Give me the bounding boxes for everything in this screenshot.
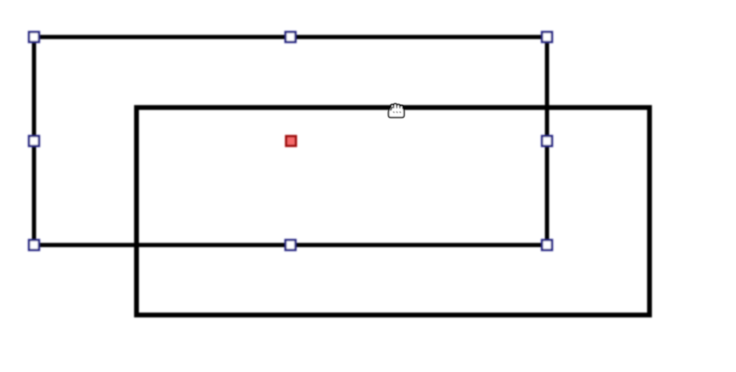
selection handle bottom-left (29, 240, 39, 250)
fingertip tick marks (392, 111, 395, 114)
selection handle middle-right (542, 136, 552, 146)
selection handle middle-left (29, 136, 39, 146)
rectangle shape A (selected, upper-left) (34, 37, 547, 245)
selection handle bottom-right (542, 240, 552, 250)
grabbing-hand cursor (389, 104, 405, 118)
selection handle top-right (542, 32, 552, 42)
selection handle bottom-middle (286, 240, 296, 250)
red center marker of selection (286, 136, 296, 146)
finger separation creases (393, 106, 395, 108)
selection handle top-left (29, 32, 39, 42)
thumb crease (391, 107, 393, 110)
selection handle top-middle (286, 32, 296, 42)
rectangle shape B (unselected, lower-right) (137, 108, 650, 316)
